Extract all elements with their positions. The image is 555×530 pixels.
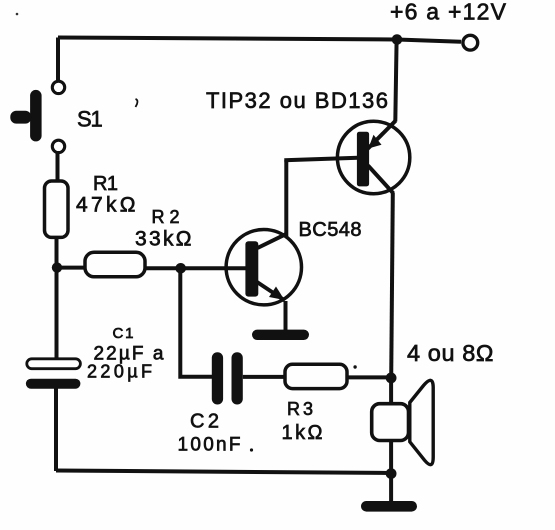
svg-text:4 ou 8Ω: 4 ou 8Ω — [407, 340, 494, 366]
svg-text:R1: R1 — [93, 173, 118, 195]
svg-text:BC548: BC548 — [299, 219, 362, 241]
svg-text:C1: C1 — [113, 325, 134, 342]
svg-text:C 2: C 2 — [190, 411, 219, 433]
svg-text:R2: R2 — [152, 207, 180, 227]
svg-text:S: S — [77, 107, 92, 132]
svg-text:100nF: 100nF — [178, 435, 241, 456]
svg-text:+6 a +12V: +6 a +12V — [390, 0, 507, 25]
svg-text:220µF: 220µF — [87, 362, 152, 382]
svg-text:1: 1 — [91, 107, 103, 132]
svg-text:1kΩ: 1kΩ — [282, 422, 323, 444]
svg-text:R3: R3 — [287, 399, 313, 419]
svg-text:47kΩ: 47kΩ — [76, 194, 136, 217]
svg-text:TIP32 ou BD136: TIP32 ou BD136 — [206, 88, 388, 113]
svg-text:33kΩ: 33kΩ — [135, 228, 192, 251]
